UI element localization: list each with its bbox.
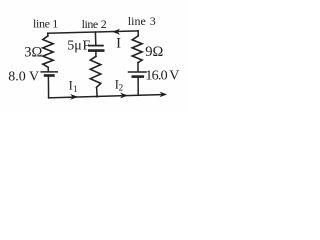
resistor R2 middle zigzag	[90, 56, 101, 87]
svg-text:8.0 V: 8.0 V	[8, 70, 39, 85]
svg-text:2: 2	[101, 17, 107, 31]
battery 8.0V long plate	[41, 71, 57, 73]
capacitor C 5uF bottom plate	[89, 49, 103, 52]
wire left branch bottom segment	[47, 77, 49, 98]
battery 16.0V short thick plate	[133, 75, 143, 78]
resistor R1 3-ohm zigzag	[43, 36, 53, 67]
wire middle between capacitor and R2	[95, 52, 97, 57]
svg-text:1: 1	[73, 84, 78, 94]
wire left between R1 and battery	[47, 67, 49, 71]
svg-text:3Ω: 3Ω	[24, 44, 42, 60]
arrowhead current I pointing left on top wire	[112, 29, 120, 35]
wire right branch bottom segment	[137, 78, 139, 95]
wire top horizontal (node between line1/line2/line3)	[48, 31, 139, 33]
svg-text:9Ω: 9Ω	[145, 44, 163, 60]
wire middle branch top segment	[94, 32, 96, 45]
svg-text:3: 3	[150, 14, 156, 28]
svg-text:5μF: 5μF	[67, 38, 90, 53]
arrowhead current I2 pointing right on bottom wire	[120, 93, 128, 99]
svg-text:1: 1	[52, 17, 58, 31]
arrowhead at right end of bottom wire	[160, 92, 167, 98]
svg-text:line: line	[82, 17, 99, 31]
wire middle branch bottom segment	[96, 87, 99, 97]
svg-text:16.0 V: 16.0 V	[145, 68, 179, 83]
svg-text:I: I	[69, 78, 73, 92]
svg-text:I: I	[116, 36, 121, 52]
battery 16.0V long plate	[129, 71, 147, 73]
wire left branch top segment	[47, 33, 49, 36]
resistor R3 9-ohm zigzag	[132, 36, 142, 63]
wire right branch top segment	[137, 31, 139, 36]
wire bottom horizontal	[49, 95, 165, 98]
arrowhead current I1 pointing right on bottom wire	[70, 94, 78, 100]
svg-text:line: line	[128, 14, 146, 28]
capacitor C 5uF top plate	[89, 45, 103, 47]
svg-text:line: line	[33, 17, 50, 31]
wire right between R3 and battery	[137, 63, 139, 71]
svg-text:2: 2	[119, 82, 124, 92]
battery 8.0V short thick plate	[45, 74, 53, 77]
